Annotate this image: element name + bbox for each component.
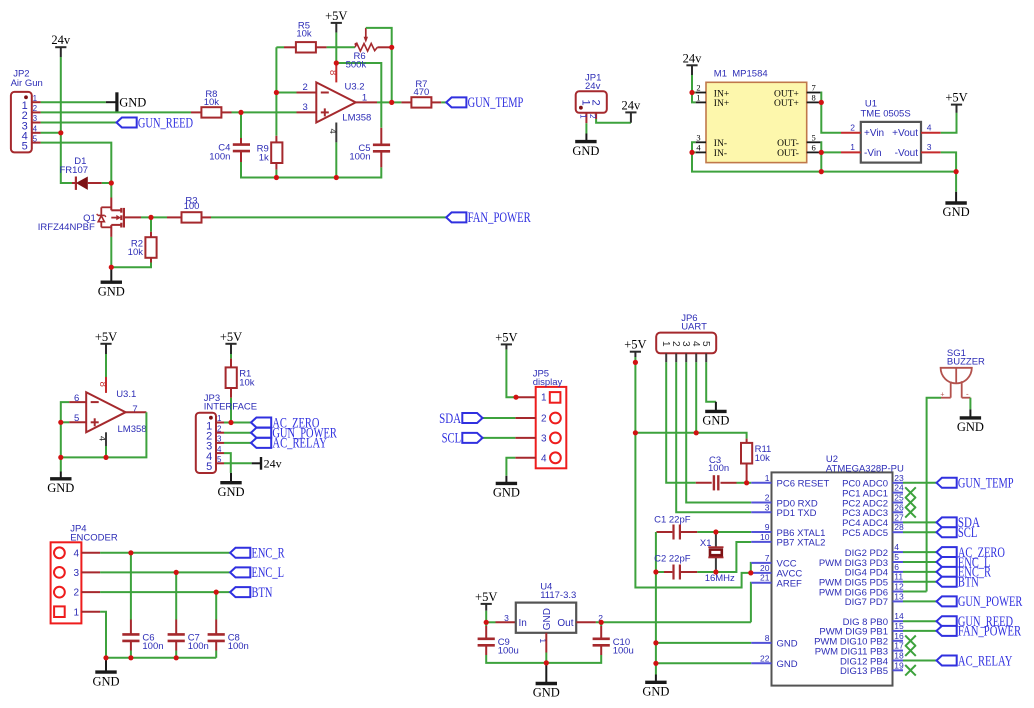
svg-text:GND: GND: [943, 205, 970, 219]
svg-text:12: 12: [894, 582, 904, 592]
lead C4 bottom: [240, 151, 242, 162]
connector JP5 display: [533, 369, 567, 469]
svg-text:TME 0505S: TME 0505S: [861, 108, 911, 119]
svg-text:2: 2: [850, 122, 855, 132]
svg-text:2: 2: [765, 493, 770, 503]
U2 pin 22 stub: [751, 662, 771, 664]
wire out- to -Vin: [821, 151, 841, 153]
wire U2 to GUN_REED: [903, 620, 937, 622]
wire pin6 to left rail: [61, 402, 69, 457]
junction rail-pin4: [334, 175, 339, 180]
svg-text:3: 3: [33, 114, 38, 123]
lead R3 left: [167, 216, 182, 218]
svg-text:28: 28: [894, 522, 904, 532]
net label BTN left: [230, 585, 273, 601]
svg-text:4: 4: [33, 125, 38, 134]
svg-text:3: 3: [680, 341, 691, 347]
diode D1 FR107: [60, 156, 102, 190]
wire 24v vertical to D1: [61, 57, 72, 183]
wire bypass to C5: [336, 63, 381, 128]
lead R7 right: [431, 101, 441, 103]
wire R2 to source node: [111, 263, 151, 268]
wire U2 to SDA: [903, 521, 937, 523]
svg-text:9: 9: [765, 522, 770, 532]
GND JP1 stub: [585, 134, 587, 142]
ground GND U2: [642, 675, 669, 699]
svg-text:100u: 100u: [498, 646, 519, 657]
wire in node link: [486, 621, 495, 623]
svg-text:7: 7: [765, 553, 770, 563]
svg-text:3: 3: [927, 142, 932, 152]
wire U2 to ENC_L: [903, 561, 937, 563]
U2 pin 19 stub: [893, 669, 904, 671]
svg-text:+5V: +5V: [220, 330, 242, 344]
svg-text:10k: 10k: [128, 247, 144, 258]
svg-text:AREF: AREF: [777, 579, 803, 590]
junction M1 in node: [689, 90, 694, 95]
lead R7 left: [401, 101, 411, 103]
JP6 pin 2 stub: [675, 353, 677, 362]
wire out+ pin8 link: [820, 101, 823, 103]
wire ground rail opamp: [241, 162, 381, 178]
wire C9 branch top: [485, 622, 487, 626]
svg-text:DIG7 PD7: DIG7 PD7: [845, 597, 888, 608]
junction output node: [389, 100, 394, 105]
wire R5 left corner: [276, 46, 284, 48]
JP6 pin 3 stub: [685, 353, 687, 362]
wire C2 right to crystal: [697, 571, 716, 573]
svg-text:GUN_TEMP: GUN_TEMP: [958, 476, 1014, 492]
svg-text:+Vout: +Vout: [892, 128, 918, 139]
lead R1 top: [230, 359, 232, 368]
svg-text:10: 10: [760, 532, 770, 542]
wire U4 pin1 to rail: [545, 653, 547, 663]
lead R9 bottom: [275, 163, 277, 170]
wire C4 branch down: [240, 112, 242, 138]
net label GUN_POWER right: [937, 594, 1023, 610]
wire JP4 pin4 to ENC_R: [100, 552, 230, 554]
net label GUN_POWER left: [251, 426, 337, 442]
junction avcc node: [748, 570, 753, 575]
opamp U3.2 pin8 stub: [335, 63, 337, 82]
net label SCL left: [442, 431, 483, 447]
junction out+ node: [819, 100, 824, 105]
wire R6 wiper feedback: [366, 28, 392, 47]
junction U3.1 rail pin4: [103, 455, 108, 460]
connector JP4 ENCODER: [51, 524, 118, 624]
op-amp U3.2 pin4 stub: [335, 123, 337, 143]
svg-text:10k: 10k: [239, 377, 255, 388]
wire D1 anode to node: [102, 182, 112, 184]
svg-text:GND: GND: [542, 608, 553, 630]
wire U2 to BTN: [903, 581, 937, 583]
svg-text:1: 1: [660, 341, 671, 347]
lead C2 left: [664, 571, 672, 573]
wire C1-C2 gnd branch: [655, 532, 657, 572]
svg-text:GND: GND: [533, 686, 560, 700]
supply +5V U3.1: [95, 330, 117, 354]
wire JP2 pin3 to GUN_REED: [41, 122, 117, 124]
svg-text:10k: 10k: [755, 453, 771, 464]
svg-text:GUN_POWER: GUN_POWER: [958, 594, 1023, 610]
svg-text:IN-: IN-: [714, 139, 727, 149]
wire R9 to rail: [275, 170, 277, 178]
wire M1 in- pin4 link: [692, 151, 696, 153]
wire -Vout to rail: [941, 152, 956, 171]
JP5 pin3 stub: [515, 437, 535, 439]
supply 24v M1: [683, 51, 703, 75]
svg-text:AC_RELAY: AC_RELAY: [272, 436, 327, 452]
svg-text:13: 13: [894, 591, 904, 601]
wire +5V to In: [485, 611, 487, 623]
wire gnd line down: [655, 572, 657, 675]
U2 pin 28 stub: [893, 531, 904, 533]
wire SDA wire: [483, 417, 516, 419]
capacitor C3: [708, 455, 729, 491]
svg-text:+5V: +5V: [945, 91, 967, 105]
svg-text:500k: 500k: [346, 60, 367, 71]
wire R6 right to output: [390, 47, 392, 102]
M1 pin 6 stub: [807, 151, 821, 153]
svg-text:OUT+: OUT+: [774, 99, 799, 109]
svg-text:3: 3: [541, 433, 547, 444]
transistor Q1 IRFZ44NPBF: [38, 198, 124, 237]
lead R2 bottom: [150, 258, 152, 263]
wire +5V to JP5 pin1: [506, 350, 516, 398]
lead C7 bottom: [175, 641, 177, 651]
svg-text:2: 2: [74, 588, 80, 599]
wire JP4 pin1 to gnd rail: [100, 612, 106, 658]
wire JP6 pin1 to C3: [666, 362, 696, 483]
svg-text:OUT-: OUT-: [777, 149, 799, 159]
svg-text:100n: 100n: [349, 152, 370, 163]
ground GND JP6: [702, 411, 729, 427]
wire buzzer minus to gnd: [969, 398, 971, 410]
wire JP2 pin2 to R8: [41, 111, 191, 113]
svg-text:C1 22pF: C1 22pF: [654, 514, 691, 525]
capacitor C1 22pF: [654, 514, 691, 539]
wire out- pin6 link: [820, 151, 823, 153]
lead C3 left: [696, 482, 712, 484]
wire C10 to rail: [546, 655, 601, 663]
U2 pin 17 stub: [893, 650, 904, 652]
wire C7 to rail: [175, 651, 177, 658]
net label FAN_POWER right: [937, 624, 1022, 640]
svg-text:2: 2: [217, 424, 222, 433]
net label AC_RELAY right: [937, 653, 1013, 669]
svg-text:ATMEGA328P-PU: ATMEGA328P-PU: [826, 463, 904, 474]
wire JP3 pin1 to AC_ZERO: [224, 422, 251, 424]
ground GND rotated at JP2 pin1: [106, 92, 146, 112]
U2 pin 12 stub: [893, 591, 904, 593]
converter U1 TME 0505S: [861, 99, 922, 163]
svg-text:IRFZ44NPBF: IRFZ44NPBF: [38, 222, 95, 233]
JP3 pin 3 stub: [216, 442, 224, 444]
svg-text:+5V: +5V: [624, 338, 646, 352]
op-amp U3.2 output stub: [356, 101, 377, 103]
wire C8 branch: [215, 592, 217, 619]
junction JP5 pin1 node: [513, 395, 518, 400]
lead R3 right: [202, 216, 212, 218]
lead C3 right: [721, 482, 737, 484]
wire +Vout to +5V: [941, 113, 957, 133]
U2 pin 10 stub: [751, 541, 771, 543]
junction c2 gnd node: [653, 569, 658, 574]
wire U2 to SCL: [903, 531, 937, 533]
wire R2 branch: [150, 217, 152, 231]
svg-text:14: 14: [894, 611, 904, 621]
svg-text:C2 22pF: C2 22pF: [654, 554, 691, 565]
buzzer SG1: [941, 368, 972, 398]
wire gate to R3: [141, 216, 167, 218]
wire C6 to rail: [130, 651, 132, 658]
svg-text:3: 3: [217, 435, 222, 444]
net label ENC_L left: [230, 565, 284, 581]
op-amp U3.1: [74, 389, 147, 435]
wire R7 to GUN_TEMP: [441, 101, 446, 103]
svg-text:GND: GND: [572, 144, 599, 158]
op-amp U3.2: [303, 82, 372, 124]
JP1 pin1 stub: [585, 113, 587, 123]
U2 pin 7 stub: [751, 562, 771, 564]
wire buzzer to PD6: [927, 398, 941, 592]
U2 pin 21 stub: [751, 582, 771, 584]
svg-text:FAN_POWER: FAN_POWER: [468, 210, 531, 226]
junction gnd pin22 node: [653, 661, 658, 666]
svg-text:2: 2: [303, 82, 308, 93]
wire Out to AREF: [596, 621, 751, 623]
M1 pin 3 stub: [696, 141, 706, 143]
wire JP1 pin1 to gnd: [585, 123, 587, 133]
svg-text:GND: GND: [47, 481, 74, 495]
connector JP6 UART: [656, 313, 716, 353]
svg-text:GND: GND: [957, 420, 984, 434]
svg-text:8: 8: [97, 382, 108, 387]
lead R5 right: [316, 46, 326, 48]
junction jp6pin4 node: [694, 430, 699, 435]
lead C1 right: [681, 531, 697, 533]
svg-text:3: 3: [303, 102, 308, 113]
junction rail c6: [128, 655, 133, 660]
wire M1 in- link: [692, 142, 696, 152]
lead R2 top: [150, 232, 152, 238]
U2 pin 9 stub: [751, 531, 771, 533]
op-amp U3.1 pin4 stub: [105, 432, 107, 446]
ground GND JP4: [92, 658, 119, 689]
svg-text:7: 7: [132, 404, 137, 415]
JP4 pin1 stub: [81, 611, 100, 613]
lead C7 top: [175, 620, 177, 635]
capacitor C2 22pF: [654, 554, 691, 580]
JP5 pin2 stub: [515, 417, 535, 419]
module M1 MP1584: [706, 69, 807, 163]
svg-text:PB7 XTAL2: PB7 XTAL2: [777, 538, 826, 549]
svg-text:7: 7: [812, 83, 816, 93]
U2 pin 25 stub: [893, 502, 904, 504]
svg-text:24v: 24v: [622, 98, 642, 112]
svg-text:100n: 100n: [708, 463, 729, 474]
svg-text:1: 1: [850, 142, 855, 152]
wire encoder gnd rail: [106, 657, 216, 659]
ground GND JP3: [217, 473, 244, 499]
svg-text:20: 20: [760, 563, 770, 573]
svg-text:OUT-: OUT-: [777, 139, 799, 149]
wire C9 to rail: [486, 655, 546, 663]
svg-text:GUN_TEMP: GUN_TEMP: [468, 95, 524, 111]
svg-text:2: 2: [696, 83, 700, 93]
lead R11 top: [746, 439, 748, 444]
wire JP2 pin4: [41, 132, 61, 134]
svg-text:GND: GND: [493, 486, 520, 500]
wire +5V to U3.1 pin8: [105, 354, 107, 377]
svg-text:6: 6: [812, 143, 816, 153]
svg-text:GND: GND: [92, 674, 119, 688]
junction xtal2 node: [713, 569, 718, 574]
svg-text:470: 470: [413, 87, 429, 98]
junction U4 out node: [599, 620, 604, 625]
lead C9 top: [485, 626, 487, 639]
no-connect pin25: [905, 497, 916, 508]
U4 pin3 stub: [496, 621, 516, 623]
svg-text:5: 5: [700, 341, 711, 347]
wire JP6 pin3 to RXD: [686, 362, 751, 502]
lead C10 top: [600, 626, 602, 639]
net label ENC_R left: [230, 546, 285, 562]
no-connect pin19: [905, 665, 916, 676]
net label GUN_TEMP right: [937, 476, 1014, 492]
wire JP3 pin3 to AC_RELAY: [224, 442, 251, 444]
svg-text:GND: GND: [642, 685, 669, 699]
svg-text:5: 5: [206, 461, 212, 473]
wire aref link: [750, 583, 752, 623]
wire JP3 pin4 to GND: [224, 453, 231, 473]
junction xtal1 node: [713, 529, 718, 534]
crystal X1 16MHz: [700, 532, 735, 584]
svg-text:2: 2: [588, 114, 597, 119]
svg-text:AC_RELAY: AC_RELAY: [958, 653, 1013, 669]
svg-text:100n: 100n: [209, 151, 230, 162]
wire pin4 to rail U3.1: [105, 446, 107, 457]
svg-text:1k: 1k: [259, 152, 269, 163]
svg-text:-Vin: -Vin: [864, 148, 882, 159]
svg-text:GND: GND: [217, 485, 244, 499]
capacitor C5: [349, 143, 390, 163]
svg-text:27: 27: [894, 512, 904, 522]
wire +5V rail to R11: [635, 433, 746, 439]
M1 pin 5 stub: [807, 141, 821, 143]
no-connect pin17: [905, 645, 916, 656]
svg-text:8: 8: [765, 633, 770, 643]
svg-text:X1: X1: [700, 538, 712, 549]
lead opamp pin3: [297, 111, 317, 113]
lead C2 right: [681, 571, 697, 573]
junction plus node: [238, 110, 243, 115]
supply +5V U4: [475, 590, 497, 611]
U2 pin 1 stub: [751, 482, 771, 484]
svg-text:19: 19: [894, 660, 904, 670]
svg-text:-Vout: -Vout: [895, 148, 919, 159]
M1 pin 8 stub: [807, 101, 821, 103]
U2 pin 8 stub: [751, 642, 771, 644]
svg-text:In: In: [519, 618, 527, 629]
supply 24v rotated at JP3: [252, 456, 282, 470]
svg-text:GND: GND: [777, 659, 798, 670]
resistor R9: [257, 142, 283, 163]
net label ENC_L right: [937, 555, 991, 571]
U2 pin 4 stub: [893, 551, 904, 553]
svg-text:BTN: BTN: [252, 585, 273, 601]
svg-text:UART: UART: [681, 322, 707, 333]
svg-text:-: -: [966, 390, 969, 399]
U4 pin1 stub: [545, 633, 547, 653]
svg-text:100: 100: [184, 201, 200, 212]
svg-text:INTERFACE: INTERFACE: [204, 401, 257, 412]
JP3 pin 5 stub: [216, 462, 224, 464]
JP6 pin 1 stub: [665, 353, 667, 362]
wire U2 to AC_RELAY: [903, 660, 937, 662]
svg-text:Air Gun: Air Gun: [11, 78, 43, 89]
wire 24v to IN+: [691, 75, 693, 93]
U2 pin 11 stub: [893, 581, 904, 583]
junction rail out- node: [819, 169, 824, 174]
svg-text:IN-: IN-: [714, 149, 727, 159]
svg-text:100n: 100n: [142, 641, 163, 652]
wire JP1 pin2 to 24v: [596, 119, 631, 123]
lead C8 bottom: [215, 641, 217, 651]
wire U2 to GUN_POWER: [903, 600, 937, 602]
wire JP2 pin1 to GND: [41, 101, 106, 103]
junction rail-R9: [274, 175, 279, 180]
resistor R1: [226, 367, 255, 388]
svg-text:1: 1: [765, 473, 770, 483]
svg-text:3: 3: [765, 502, 770, 512]
U2 pin 23 stub: [893, 482, 904, 484]
svg-text:ENC_R: ENC_R: [252, 546, 285, 562]
wire U2 to AC_ZERO: [903, 551, 937, 553]
net label AC_ZERO right: [937, 545, 1005, 561]
wire minus to pin2: [276, 92, 296, 94]
svg-text:3: 3: [696, 133, 700, 143]
ground GND buzzer: [957, 409, 984, 434]
svg-text:SCL: SCL: [958, 525, 978, 541]
U2 pin 20 stub: [751, 572, 771, 574]
U2 pin 24 stub: [893, 492, 904, 494]
U1 pin4 stub: [921, 132, 941, 134]
wire XTAL2 wire: [716, 542, 751, 572]
capacitor C6: [122, 632, 163, 652]
JP2 pin 1 stub: [32, 101, 41, 103]
svg-text:4: 4: [696, 143, 701, 153]
svg-text:24v: 24v: [585, 81, 601, 92]
supply +5V JP6: [624, 338, 646, 357]
lead R6 right: [377, 46, 389, 48]
wire JP6 pin4 to +5V rail: [695, 362, 697, 433]
wire JP6 pin2 to TXD: [676, 362, 751, 512]
lead R11 bottom: [746, 464, 748, 483]
svg-text:1: 1: [578, 114, 587, 119]
wire U2 pin8 gnd wire: [656, 642, 751, 644]
svg-text:+5V: +5V: [475, 590, 497, 604]
JP5 pin1 stub: [516, 396, 536, 398]
ground GND JP1: [572, 142, 599, 158]
ground GND Q1: [98, 267, 125, 298]
wire JP3 pin2 to GUN_POWER: [224, 432, 251, 434]
wire U2 to GUN_TEMP: [903, 482, 937, 484]
JP4 pin4 stub: [81, 552, 100, 554]
capacitor C8: [208, 632, 249, 652]
svg-text:GND: GND: [119, 95, 146, 109]
supply +5V opamp: [325, 9, 347, 33]
